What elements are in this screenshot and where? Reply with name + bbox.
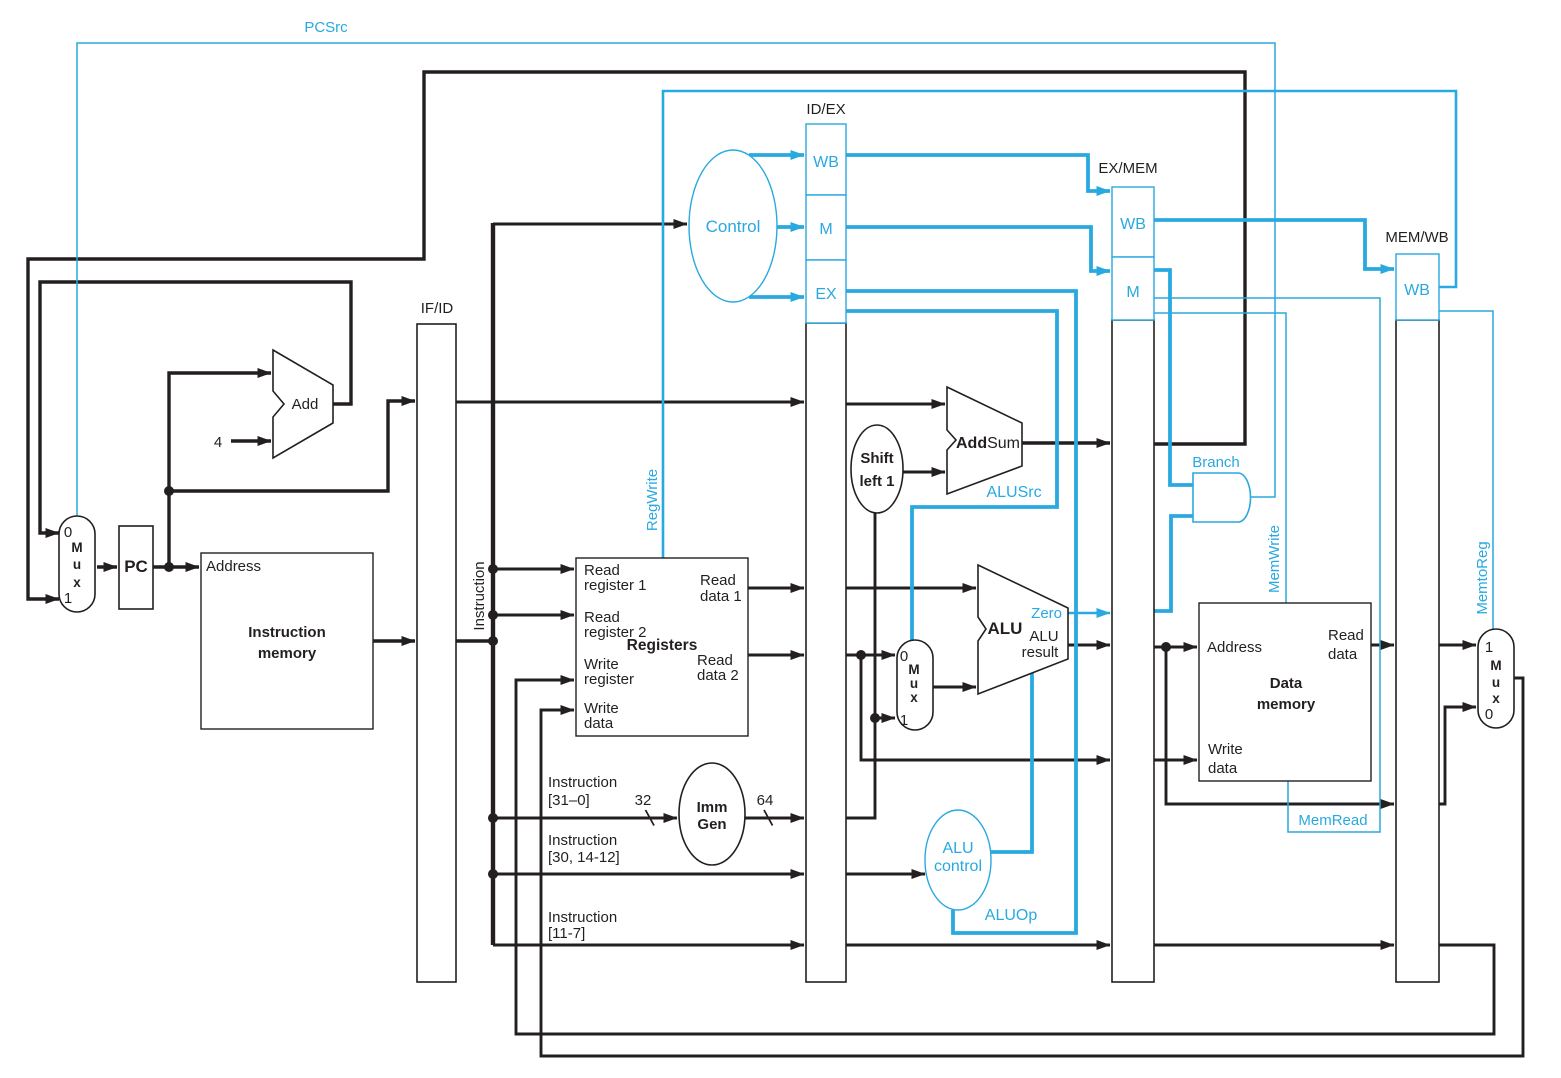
svg-text:M: M <box>1126 284 1139 301</box>
svg-text:0: 0 <box>900 648 908 665</box>
svg-text:Branch: Branch <box>1192 454 1240 471</box>
svg-text:register 1: register 1 <box>584 577 647 594</box>
svg-text:0: 0 <box>64 524 72 541</box>
svg-text:M: M <box>71 540 82 555</box>
svg-text:EX/MEM: EX/MEM <box>1098 160 1157 177</box>
svg-text:WB: WB <box>1120 216 1146 233</box>
svg-text:data 1: data 1 <box>700 588 742 605</box>
svg-text:Data: Data <box>1270 675 1303 692</box>
svg-text:1: 1 <box>900 712 908 729</box>
svg-text:x: x <box>910 690 918 705</box>
svg-text:Zero: Zero <box>1031 605 1062 622</box>
svg-text:data: data <box>584 715 614 732</box>
svg-text:WB: WB <box>813 154 839 171</box>
svg-text:ALU: ALU <box>1029 628 1058 645</box>
svg-text:32: 32 <box>635 792 652 809</box>
svg-text:memory: memory <box>258 645 317 662</box>
svg-text:left 1: left 1 <box>859 473 894 490</box>
svg-text:ID/EX: ID/EX <box>806 101 845 118</box>
svg-text:register: register <box>584 671 634 688</box>
svg-text:PC: PC <box>124 557 148 576</box>
svg-text:Gen: Gen <box>697 816 726 833</box>
svg-text:Instruction: Instruction <box>548 832 617 849</box>
svg-text:[30, 14-12]: [30, 14-12] <box>548 849 620 866</box>
svg-text:Registers: Registers <box>627 637 698 654</box>
svg-text:u: u <box>910 676 918 691</box>
svg-text:M: M <box>1490 658 1501 673</box>
svg-text:[11-7]: [11-7] <box>548 925 585 942</box>
svg-text:memory: memory <box>1257 696 1316 713</box>
svg-text:data: data <box>1208 760 1238 777</box>
svg-text:AddSum: AddSum <box>956 435 1020 452</box>
svg-text:64: 64 <box>757 792 774 809</box>
svg-text:Instruction: Instruction <box>548 774 617 791</box>
svg-text:M: M <box>908 662 919 677</box>
svg-text:1: 1 <box>64 590 72 607</box>
svg-text:4: 4 <box>214 434 222 451</box>
svg-text:EX: EX <box>815 286 837 303</box>
svg-text:ALU: ALU <box>942 840 973 857</box>
svg-text:Instruction: Instruction <box>548 909 617 926</box>
svg-text:u: u <box>73 557 81 572</box>
svg-text:Shift: Shift <box>860 450 893 467</box>
svg-text:x: x <box>73 575 81 590</box>
svg-text:IF/ID: IF/ID <box>421 300 454 317</box>
svg-text:Read: Read <box>700 572 736 589</box>
svg-text:x: x <box>1492 691 1500 706</box>
svg-text:Read: Read <box>1328 627 1364 644</box>
svg-text:result: result <box>1022 644 1060 661</box>
svg-text:MemRead: MemRead <box>1298 812 1367 829</box>
svg-text:1: 1 <box>1485 639 1493 656</box>
svg-text:RegWrite: RegWrite <box>644 469 661 531</box>
svg-text:[31–0]: [31–0] <box>548 792 590 809</box>
svg-text:M: M <box>819 221 832 238</box>
svg-text:MemWrite: MemWrite <box>1266 525 1283 593</box>
svg-text:Address: Address <box>206 558 261 575</box>
svg-text:Instruction: Instruction <box>248 624 326 641</box>
svg-text:ALUSrc: ALUSrc <box>986 484 1041 501</box>
svg-text:Add: Add <box>292 396 319 413</box>
svg-text:ALU: ALU <box>988 619 1023 638</box>
svg-text:Address: Address <box>1207 639 1262 656</box>
svg-text:Imm: Imm <box>697 799 728 816</box>
svg-text:0: 0 <box>1485 706 1493 723</box>
svg-text:Control: Control <box>706 217 761 236</box>
svg-text:MEM/WB: MEM/WB <box>1385 229 1448 246</box>
svg-text:MemtoReg: MemtoReg <box>1474 541 1491 614</box>
svg-text:data 2: data 2 <box>697 667 739 684</box>
svg-text:PCSrc: PCSrc <box>304 19 348 36</box>
svg-text:Write: Write <box>1208 741 1243 758</box>
svg-text:ALUOp: ALUOp <box>985 907 1038 924</box>
svg-text:WB: WB <box>1404 282 1430 299</box>
svg-text:u: u <box>1492 675 1500 690</box>
svg-text:control: control <box>934 858 982 875</box>
svg-text:Instruction: Instruction <box>471 561 488 630</box>
svg-text:data: data <box>1328 646 1358 663</box>
